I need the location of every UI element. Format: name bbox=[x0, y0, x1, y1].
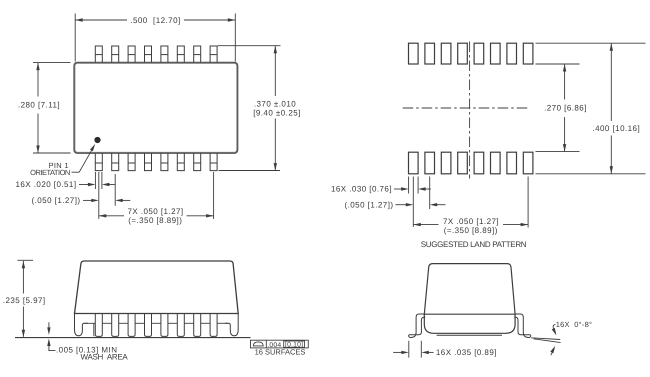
svg-text:7X .050 [1.27]: 7X .050 [1.27] bbox=[443, 217, 499, 226]
top view: top pin row (pins 16-9) bbox=[95, 46, 217, 62]
dimension .235 [5.97] height bbox=[3, 260, 46, 337]
svg-text:.400 [10.16]: .400 [10.16] bbox=[592, 124, 640, 133]
svg-text:(.050 [1.27]): (.050 [1.27]) bbox=[345, 200, 394, 209]
vertical centerline bbox=[469, 42, 471, 179]
svg-text:ORIETATION: ORIETATION bbox=[30, 168, 70, 177]
end view: package body bbox=[424, 264, 515, 336]
svg-text:SUGGESTED LAND PATTERN: SUGGESTED LAND PATTERN bbox=[421, 240, 527, 249]
dimension .005 [0.13] min wash area bbox=[47, 322, 128, 361]
svg-text:.500 [12.70]: .500 [12.70] bbox=[130, 16, 180, 25]
svg-text:(.050 [1.27]): (.050 [1.27]) bbox=[32, 196, 81, 205]
dimension .270 [6.86] between pad rows bbox=[536, 64, 587, 152]
dimension .400 [10.16] overall pad span bbox=[536, 43, 646, 174]
dimension 16X .035 [0.89] foot length bbox=[393, 341, 497, 358]
svg-text:16X .035 [0.89]: 16X .035 [0.89] bbox=[436, 348, 497, 357]
top view: package body bbox=[74, 63, 237, 153]
side view: left end lead curl bbox=[75, 314, 88, 336]
svg-text:(=.350 [8.89]): (=.350 [8.89]) bbox=[128, 216, 182, 225]
side view: leads comb bbox=[95, 314, 217, 337]
svg-text:WASH AREA: WASH AREA bbox=[81, 352, 129, 361]
flatness control frame .004 [0.10] bbox=[251, 340, 309, 356]
svg-text:.280 [7.11]: .280 [7.11] bbox=[18, 101, 60, 110]
svg-text:16X .030 [0.76]: 16X .030 [0.76] bbox=[331, 185, 392, 194]
land pattern: bottom pad row bbox=[409, 152, 533, 174]
dimension (.050 [1.27]) pad pitch bbox=[345, 177, 446, 228]
svg-text:16X 0°-8°: 16X 0°-8° bbox=[556, 320, 592, 329]
label SUGGESTED LAND PATTERN bbox=[421, 240, 527, 249]
svg-text:16 SURFACES: 16 SURFACES bbox=[255, 347, 306, 356]
svg-text:.235 [5.97]: .235 [5.97] bbox=[3, 296, 46, 305]
svg-text:.270 [6.86]: .270 [6.86] bbox=[544, 104, 587, 113]
pin 1 orientation label and leader bbox=[30, 144, 95, 177]
side view: right end lead curl bbox=[225, 314, 238, 336]
top view: bottom pin row (pins 1-8) bbox=[95, 153, 217, 170]
dimension .280 [7.11] body height bbox=[18, 63, 71, 153]
side view: package body outline bbox=[75, 261, 239, 314]
dimension .500 [12.70] overall width bbox=[75, 14, 235, 62]
svg-text:16X .020 [0.51]: 16X .020 [0.51] bbox=[15, 180, 76, 189]
dimension (.050 [1.27]) lead pitch bbox=[32, 172, 131, 219]
horizontal centerline bbox=[403, 107, 529, 109]
dimension 16X 0-8 degree lead angle bbox=[531, 320, 592, 355]
svg-text:(=.350 [8.89]): (=.350 [8.89]) bbox=[444, 226, 498, 235]
dimension 7X .050 [1.27] = .350 [8.89] bbox=[99, 172, 214, 225]
dimension 16X .020 [0.51] lead width bbox=[15, 172, 114, 189]
end view: right gull-wing lead bbox=[514, 314, 531, 338]
svg-text:[9.40 ±0.25]: [9.40 ±0.25] bbox=[253, 108, 301, 117]
pin 1 orientation dot bbox=[94, 137, 100, 143]
land pattern: top pad row bbox=[409, 43, 533, 64]
dimension .370 +-.010 lead span bbox=[218, 46, 301, 171]
side view: far lead feet line segments bbox=[84, 323, 228, 336]
seating plane line bbox=[15, 337, 251, 339]
svg-text:.370 ±.010: .370 ±.010 bbox=[254, 99, 296, 108]
end view: left gull-wing lead bbox=[409, 314, 426, 338]
dimension 16X .030 [0.76] pad width bbox=[331, 177, 431, 194]
svg-text:7X .050 [1.27]: 7X .050 [1.27] bbox=[127, 207, 183, 216]
dimension 7X .050 [1.27] = .350 [8.89] pads bbox=[413, 177, 528, 235]
